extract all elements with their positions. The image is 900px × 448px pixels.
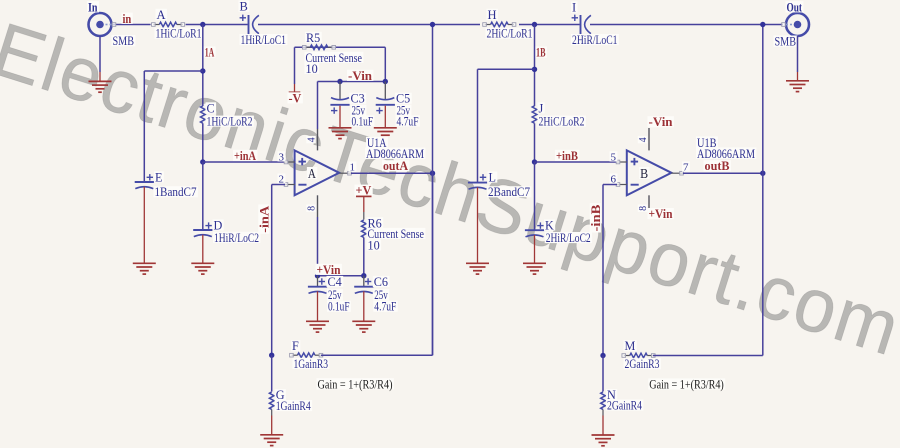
svg-text:M: M <box>625 339 636 353</box>
svg-text:4: 4 <box>638 137 649 142</box>
ground (C3) <box>329 127 352 129</box>
capacitor C4 0.1uF <box>317 276 319 287</box>
node +inB junction <box>532 159 537 164</box>
svg-text:E: E <box>155 170 162 184</box>
svg-text:4.7uF: 4.7uF <box>397 114 419 128</box>
net +Vin rail (stage1) <box>318 275 364 277</box>
pin 8 power stub (U1B) <box>648 195 650 214</box>
wire: -Vin rail to op-amp A pin 4 <box>317 82 319 130</box>
label In <box>87 1 99 12</box>
net label -Vin <box>347 70 373 81</box>
wire: outB feedback vertical <box>762 25 764 356</box>
SMB connector J-Out <box>786 13 809 36</box>
net -Vin rail <box>318 81 386 83</box>
ground (C6) <box>352 320 375 322</box>
label SMB (output) <box>774 36 798 47</box>
svg-text:2HiR/LoC1: 2HiR/LoC1 <box>572 33 618 47</box>
svg-text:SMB: SMB <box>775 35 797 49</box>
ground (D) <box>191 262 214 264</box>
wire: outA feedback vertical <box>432 25 434 356</box>
ground (output SMB) <box>786 80 809 82</box>
resistor R5 current sense loop wires <box>295 46 386 48</box>
svg-text:10: 10 <box>306 62 318 76</box>
svg-text:1GainR3: 1GainR3 <box>294 357 329 371</box>
wire: -inB column down to M row <box>602 185 604 356</box>
svg-text:1A: 1A <box>205 46 215 60</box>
net label 1B <box>535 46 547 57</box>
wire: op-amp A pin 8 down to +Vin rail <box>317 195 319 217</box>
ground (G) <box>260 434 283 436</box>
svg-text:in: in <box>123 12 132 26</box>
net label +inA <box>233 150 257 161</box>
svg-text:3: 3 <box>279 151 285 163</box>
svg-text:+inB: +inB <box>556 149 578 163</box>
net label 1A <box>204 46 216 57</box>
SMB connector J-In <box>89 13 112 36</box>
wire: capacitor E to ground <box>143 187 145 263</box>
ground (input SMB) <box>89 80 112 82</box>
label SMB (input) <box>112 35 136 46</box>
capacitor I 2HiR/LoC1 <box>580 15 582 34</box>
net label +Vin <box>316 264 342 275</box>
svg-text:+inA: +inA <box>234 149 256 163</box>
label Out <box>786 1 804 12</box>
wire: capacitor D to ground <box>202 235 204 263</box>
pin 7 output stub <box>671 172 683 174</box>
svg-text:1GainR4: 1GainR4 <box>276 399 311 413</box>
ground (N) <box>592 434 615 436</box>
capacitor C6 4.7uF <box>363 276 365 287</box>
pin 2 stub <box>285 184 295 186</box>
wire: feedback column down to F row <box>271 185 273 356</box>
pin 8 power bottom, number <box>306 205 317 212</box>
capacitor D 1HiR/LoC2 <box>193 229 212 231</box>
svg-text:+V: +V <box>356 184 372 198</box>
net label outA <box>382 160 409 171</box>
output wire outA <box>351 172 433 174</box>
pin 4 power stub (U1B) <box>648 128 650 150</box>
capacitor L 2BandC7 <box>468 182 487 184</box>
resistor G 1GainR4 <box>271 355 273 391</box>
svg-text:4: 4 <box>307 137 318 142</box>
pin 6 stub <box>617 184 627 186</box>
svg-text:1HiR/LoC2: 1HiR/LoC2 <box>214 231 259 245</box>
svg-text:-inB: -inB <box>589 205 603 232</box>
wire: pin2 to feedback column <box>272 184 285 186</box>
svg-text:1HiC/LoR1: 1HiC/LoR1 <box>156 27 202 41</box>
svg-text:J: J <box>539 101 544 115</box>
op-amp U1B AD8066ARM <box>627 150 672 195</box>
resistor R6 Current Sense 10 <box>363 212 365 220</box>
svg-text:4.7uF: 4.7uF <box>374 300 396 314</box>
wire: R5 right to -Vin rail <box>384 47 386 81</box>
wire: +inA node down to capacitor D <box>202 162 204 230</box>
resistor H 2HiC/LoR1 <box>491 22 509 27</box>
svg-text:A: A <box>308 166 316 181</box>
node 1B junction <box>532 22 537 27</box>
svg-text:0.1uF: 0.1uF <box>352 114 374 128</box>
svg-text:0.1uF: 0.1uF <box>328 300 350 314</box>
wire: +inB node down to capacitor K <box>534 162 536 230</box>
net label -inA (rotated) <box>257 204 271 233</box>
wire: branch to capacitor E <box>144 70 203 72</box>
svg-text:R5: R5 <box>306 31 320 45</box>
net label -Vin (U1B) <box>648 116 674 127</box>
resistor A 1HiC/LoR1 <box>159 22 177 27</box>
pin number 4 (U1A) <box>306 136 317 143</box>
wire: R6 to +Vin rail <box>363 238 365 276</box>
svg-text:-V: -V <box>289 91 302 105</box>
svg-text:2HiC/LoR2: 2HiC/LoR2 <box>539 115 585 129</box>
node 1A junction <box>200 22 205 27</box>
output wire outB <box>683 172 763 174</box>
wire: node 1A down to resistor C <box>202 25 204 107</box>
svg-text:outA: outA <box>383 159 408 173</box>
pin 5 stub <box>617 161 627 163</box>
svg-text:Gain = 1+(R3/R4): Gain = 1+(R3/R4) <box>318 377 393 391</box>
svg-text:H: H <box>488 8 497 22</box>
wire: Out connector to ground <box>797 36 799 72</box>
svg-text:7: 7 <box>683 162 689 174</box>
net label outB <box>704 160 731 171</box>
net label +Vin (U1B) <box>648 208 674 219</box>
wire: node 1B down to resistor J <box>534 25 536 107</box>
ground (K) <box>523 262 546 264</box>
svg-text:8: 8 <box>307 206 318 211</box>
svg-text:A: A <box>157 8 166 22</box>
junction to 1BandC7 branch <box>200 68 205 73</box>
svg-text:C4: C4 <box>328 275 342 289</box>
svg-text:SMB: SMB <box>113 34 135 48</box>
resistor F 1GainR3 <box>297 353 315 358</box>
svg-text:5: 5 <box>611 151 617 163</box>
gain formula (stage2) <box>648 378 725 389</box>
svg-text:B: B <box>240 0 248 14</box>
svg-text:1HiR/LoC1: 1HiR/LoC1 <box>241 33 287 47</box>
pin 1 output stub <box>339 172 351 174</box>
op-amp U1A AD8066ARM <box>295 150 340 195</box>
svg-text:1B: 1B <box>536 46 546 60</box>
power symbol +V <box>355 185 373 196</box>
svg-text:+Vin: +Vin <box>649 207 673 221</box>
pin 3 stub <box>285 161 295 163</box>
ground (C5) <box>374 127 397 129</box>
resistor C 1HiC/LoR2 <box>201 106 206 123</box>
resistor M 2GainR3 <box>630 353 647 358</box>
power symbol -V <box>289 91 301 93</box>
svg-text:I: I <box>572 1 576 15</box>
capacitor B 1HiR/LoC1 <box>248 15 250 34</box>
svg-text:-Vin: -Vin <box>649 115 673 129</box>
svg-text:C6: C6 <box>374 275 388 289</box>
capacitor E 1BandC7 <box>135 181 154 183</box>
wire: In connector to ground <box>99 36 101 72</box>
svg-text:L: L <box>489 171 496 185</box>
svg-text:1HiC/LoR2: 1HiC/LoR2 <box>207 115 253 129</box>
resistor N 2GainR4 <box>602 356 604 392</box>
ground (L) <box>466 262 489 264</box>
ground (C4) <box>306 320 329 322</box>
net label in <box>122 13 133 24</box>
svg-text:1BandC7: 1BandC7 <box>155 185 197 199</box>
node +inA junction <box>200 159 205 164</box>
wire: M to outB feedback vertical <box>653 355 763 357</box>
wire: F to feedback vertical <box>321 354 433 356</box>
svg-text:C: C <box>207 101 215 115</box>
wire: +inA to op-amp pin 3 <box>203 161 285 163</box>
svg-text:Out: Out <box>787 0 803 14</box>
net label +inB <box>555 150 579 161</box>
svg-text:Gain = 1+(R3/R4): Gain = 1+(R3/R4) <box>649 378 724 392</box>
svg-text:-inA: -inA <box>257 206 271 233</box>
svg-text:outB: outB <box>705 159 730 173</box>
value 1HiC/LoR1 <box>155 28 203 39</box>
wire: pin6 to -inB column <box>603 184 617 186</box>
svg-text:2HiR/LoC2: 2HiR/LoC2 <box>546 231 591 245</box>
capacitor K 2HiR/LoC2 <box>525 229 544 231</box>
svg-text:B: B <box>640 166 648 181</box>
svg-text:F: F <box>292 339 299 353</box>
wire: +inB to op-amp pin 5 <box>535 161 618 163</box>
svg-text:1: 1 <box>350 162 356 174</box>
svg-text:2GainR4: 2GainR4 <box>607 399 642 413</box>
resistor R5 Current Sense 10 <box>310 45 328 50</box>
svg-text:-Vin: -Vin <box>348 69 372 83</box>
wire: main top net, In to Out <box>112 24 151 26</box>
gain formula (stage1) <box>317 378 394 389</box>
svg-text:10: 10 <box>368 238 380 252</box>
wire: resistor C to +inA node <box>202 123 204 162</box>
resistor J 2HiC/LoR2 <box>532 106 537 123</box>
svg-text:2BandC7: 2BandC7 <box>488 185 530 199</box>
label A <box>156 9 167 20</box>
svg-text:2HiC/LoR1: 2HiC/LoR1 <box>487 27 533 41</box>
svg-text:2GainR3: 2GainR3 <box>625 357 660 371</box>
capacitor C3 0.1uF <box>339 82 341 100</box>
capacitor C5 4.7uF <box>384 82 386 100</box>
ground (E) <box>133 262 156 264</box>
net label -inB (rotated) <box>589 203 603 232</box>
wire: branch to capacitor L <box>478 68 535 70</box>
svg-text:In: In <box>88 0 98 14</box>
